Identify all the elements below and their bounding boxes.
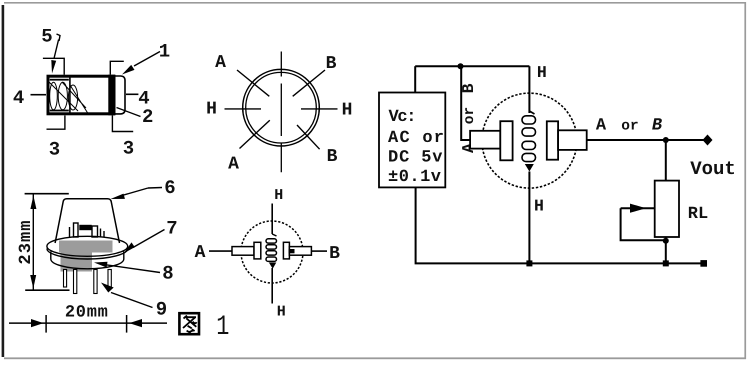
wire A lead xyxy=(209,250,232,252)
wire H bottom drop xyxy=(528,172,530,264)
terminal square bottom right xyxy=(700,260,707,267)
wire RL bottom lead xyxy=(665,237,667,263)
svg-text:H: H xyxy=(274,187,283,204)
dimension 20mm left-pointing arrow xyxy=(129,319,142,327)
flange rim ellipse xyxy=(47,236,128,256)
dimension 23mm up arrow xyxy=(30,196,36,210)
bracket top-right xyxy=(110,61,124,74)
heater coil loop 3 xyxy=(68,85,77,110)
svg-text:A: A xyxy=(215,53,226,73)
svg-text:or: or xyxy=(462,107,478,124)
heater coil loop 1 xyxy=(50,82,58,110)
pin 1 xyxy=(64,270,67,288)
wire top supply xyxy=(415,65,529,67)
label 4 right tick xyxy=(126,93,138,95)
junction dot RL bottom xyxy=(663,238,669,244)
svg-text:H: H xyxy=(342,101,353,121)
electrode A plate xyxy=(254,242,261,259)
pin A tube xyxy=(470,131,500,149)
junction dot bottom H xyxy=(526,260,532,266)
label 8 leader arrow xyxy=(106,265,160,273)
plastic cap outline xyxy=(55,199,119,243)
electrode layer bar (right, label 1) xyxy=(108,75,115,116)
label 7 leader arrow xyxy=(133,230,165,248)
svg-text:23mm: 23mm xyxy=(17,219,36,264)
heater coil xyxy=(522,111,536,162)
wire H top drop xyxy=(528,66,530,113)
pin H right xyxy=(301,108,338,110)
wire box top lead xyxy=(414,66,416,92)
label 5 hook xyxy=(57,34,61,41)
svg-text:RL: RL xyxy=(688,205,708,224)
svg-text:Vout: Vout xyxy=(690,158,736,180)
pin A bottom-left xyxy=(240,120,270,148)
center line vertical xyxy=(280,52,282,173)
wire box bottom lead xyxy=(416,187,704,263)
border frame bottom xyxy=(4,357,746,359)
dimension 23mm down arrow xyxy=(30,275,36,289)
svg-text:B: B xyxy=(459,83,478,93)
heater coil end arrow xyxy=(525,164,534,172)
svg-text:±0.1v: ±0.1v xyxy=(388,168,441,187)
border frame right xyxy=(744,2,746,359)
electrode strip top xyxy=(50,79,69,81)
junction dot bottom RL xyxy=(663,260,669,266)
svg-text:B: B xyxy=(327,147,338,167)
label 1 leader arrow xyxy=(134,52,160,67)
base bottom arc xyxy=(51,252,124,269)
pin B tube xyxy=(289,247,311,256)
electrode B plate xyxy=(283,242,289,259)
wiper arrow wire xyxy=(621,207,655,209)
dimension 23mm line xyxy=(32,194,34,291)
svg-text:H: H xyxy=(277,303,286,320)
flange lower arc xyxy=(47,249,128,259)
svg-text:8: 8 xyxy=(162,263,173,285)
dimension 23mm bottom tick xyxy=(25,289,69,291)
svg-text:Vc:: Vc: xyxy=(389,108,417,127)
pin B solder blob xyxy=(289,249,295,253)
bracket bottom-left xyxy=(47,116,65,130)
svg-text:7: 7 xyxy=(166,218,177,240)
end cap (right, label 2) xyxy=(115,76,125,114)
label 6 leader arrow xyxy=(148,187,162,190)
wire RL top lead xyxy=(665,140,667,181)
svg-text:H: H xyxy=(534,197,544,216)
label 2 leader xyxy=(117,108,141,117)
pin B bottom-right xyxy=(297,125,320,149)
svg-text:or: or xyxy=(621,119,638,135)
pin B tube xyxy=(558,130,587,150)
bracket bottom-right xyxy=(112,116,133,132)
dimension 20mm right-pointing arrow xyxy=(31,319,44,327)
svg-text:3: 3 xyxy=(49,139,60,161)
label 4 left tick xyxy=(31,94,47,96)
svg-text:4: 4 xyxy=(138,88,149,110)
svg-text:1: 1 xyxy=(216,312,229,343)
svg-text:4: 4 xyxy=(13,87,24,109)
caption glyph TU (boxed character) xyxy=(179,313,199,334)
outer shell circle xyxy=(243,69,320,146)
svg-text:H: H xyxy=(206,100,217,120)
base gray band xyxy=(59,241,113,253)
wire A-or-B drop xyxy=(461,66,470,140)
power source box Vc xyxy=(379,93,445,188)
svg-text:20mm: 20mm xyxy=(65,304,109,323)
wire H bottom lead xyxy=(271,268,273,304)
wire H top lead xyxy=(271,204,273,235)
electrode divider line (left) xyxy=(69,76,71,114)
base gray block xyxy=(61,253,93,272)
svg-text:DC 5v: DC 5v xyxy=(388,149,443,168)
dimension 20mm right tick xyxy=(126,315,128,333)
pin 2 xyxy=(74,270,77,294)
svg-text:A: A xyxy=(195,243,206,263)
svg-text:5: 5 xyxy=(41,26,52,48)
resistor RL body xyxy=(655,181,679,237)
svg-text:A: A xyxy=(228,155,239,175)
svg-text:H: H xyxy=(537,63,547,82)
label 5 leader arrow xyxy=(54,40,59,59)
svg-text:B: B xyxy=(652,117,662,136)
pin H left xyxy=(225,108,262,110)
dimension 23mm top tick xyxy=(25,193,69,195)
inner electrode marks xyxy=(70,223,105,237)
svg-text:1: 1 xyxy=(159,41,170,63)
heater coil loop 2 xyxy=(58,82,67,110)
electrode B plate xyxy=(547,121,558,159)
svg-text:6: 6 xyxy=(164,177,175,199)
pin A tube xyxy=(232,247,254,256)
svg-text:AC or: AC or xyxy=(388,129,444,148)
pin 3 xyxy=(94,270,97,294)
wiper arrowhead xyxy=(630,204,646,213)
heater coil lead-out diagonals xyxy=(49,82,88,114)
svg-text:9: 9 xyxy=(156,299,167,321)
bracket top-left xyxy=(43,58,64,74)
wire output B xyxy=(587,139,708,141)
svg-text:3: 3 xyxy=(123,138,134,160)
wire B lead xyxy=(311,250,327,252)
terminal diamond Vout xyxy=(703,135,713,146)
dimension 20mm line xyxy=(9,322,167,324)
border frame top xyxy=(4,2,746,4)
pin A top-left xyxy=(237,70,269,96)
inner shell circle xyxy=(246,72,317,143)
border frame left xyxy=(2,5,5,357)
wiper return wire xyxy=(621,208,666,240)
heater coil xyxy=(266,234,277,261)
svg-text:B: B xyxy=(329,244,340,264)
svg-text:A: A xyxy=(596,117,607,136)
junction dot output xyxy=(663,137,669,143)
dimension 20mm left tick xyxy=(45,315,47,333)
heater coil end arrow xyxy=(269,263,276,269)
label 9 leader arrow xyxy=(111,293,153,308)
electrode strip bottom xyxy=(50,110,69,112)
electrode A plate xyxy=(500,121,512,160)
ceramic tube body outline xyxy=(48,76,114,114)
pin 4 xyxy=(108,270,111,288)
symbol shell dashed circle xyxy=(241,221,303,283)
svg-text:B: B xyxy=(326,54,337,74)
sensor shell dashed circle xyxy=(482,93,577,188)
pin B top-right xyxy=(293,70,325,96)
junction dot top supply xyxy=(458,63,464,69)
